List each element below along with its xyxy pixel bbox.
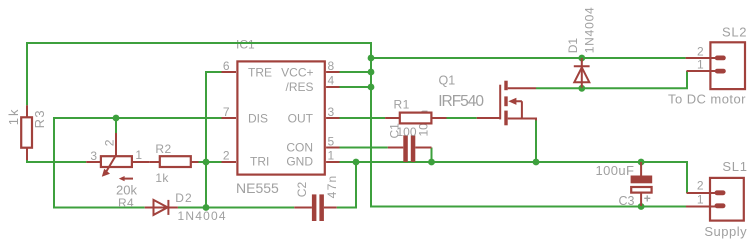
potentiometer R4 pin 2 lead bbox=[115, 133, 117, 156]
wire CON pin 5 to C1 left bbox=[340, 147, 388, 149]
wire GND down to SL1 pin 2 bbox=[686, 161, 688, 193]
wire Q1 drain to D1 anode and SL2 pin 1 bbox=[536, 71, 687, 88]
svg-text:1: 1 bbox=[697, 193, 704, 207]
svg-text:3: 3 bbox=[328, 105, 335, 119]
IC1 pin 4 stub bbox=[326, 86, 339, 88]
IC1 NE555 body bbox=[237, 61, 324, 174]
svg-text:2: 2 bbox=[102, 139, 116, 146]
wire V+ main vertical rail bbox=[370, 42, 372, 207]
junction C2 right / GND rail bbox=[353, 159, 360, 166]
junction TRE-TRI vertical / D2 wire bbox=[203, 204, 210, 211]
svg-text:1: 1 bbox=[135, 148, 142, 162]
svg-text:1N4004: 1N4004 bbox=[178, 209, 227, 223]
resistor R3 leads bbox=[26, 105, 28, 160]
svg-text:R2: R2 bbox=[155, 142, 171, 156]
connector SL2 box bbox=[710, 42, 745, 89]
IC1 pin 7 stub bbox=[222, 117, 237, 119]
capacitor C3 bottom plate bbox=[631, 187, 651, 193]
svg-text:Q1: Q1 bbox=[439, 74, 456, 88]
junction TRE-TRI vertical / TRI wire bbox=[203, 159, 210, 166]
svg-text:NE555: NE555 bbox=[236, 180, 279, 196]
svg-text:SL1: SL1 bbox=[722, 159, 747, 174]
wire OUT pin 3 to R1 bbox=[340, 117, 386, 119]
junction Q1 source / GND rail bbox=[533, 159, 540, 166]
svg-text:3: 3 bbox=[90, 149, 97, 163]
diode D2 cathode bar bbox=[167, 200, 169, 215]
junction C3 top / GND rail bbox=[638, 159, 645, 166]
junction D1 cathode bbox=[578, 55, 585, 62]
wire D2 cathode to C2 left bbox=[178, 207, 294, 209]
connector SL2 pin 1 stub bbox=[687, 70, 717, 72]
svg-text:D1: D1 bbox=[566, 38, 580, 54]
svg-text:R1: R1 bbox=[394, 98, 410, 112]
diode D1 lead line bbox=[581, 58, 583, 62]
diode D1 cathode bar bbox=[574, 65, 590, 67]
resistor R1 leads bbox=[385, 117, 446, 119]
svg-text:VCC+: VCC+ bbox=[281, 66, 313, 80]
transistor Q1 channel bars bbox=[504, 81, 507, 91]
diode D2 lead line bbox=[145, 207, 178, 209]
capacitor C3 bottom lead bbox=[640, 193, 642, 206]
resistor R1 body bbox=[400, 113, 432, 124]
capacitor C2 right lead bbox=[324, 207, 337, 209]
junction D1 anode / drain wire bbox=[578, 85, 585, 92]
svg-text:GND: GND bbox=[286, 155, 313, 169]
wire V+ left vertical to R3 bbox=[26, 42, 28, 105]
wire C1 right down to GND rail bbox=[431, 148, 433, 163]
svg-text:8: 8 bbox=[328, 59, 335, 73]
junction pot wiper / DIS wire bbox=[113, 115, 120, 122]
svg-text:1: 1 bbox=[697, 58, 704, 72]
connector SL1 pin tabs bbox=[715, 190, 726, 195]
wire R3 bottom vertical bbox=[26, 148, 28, 162]
svg-text:5: 5 bbox=[328, 134, 335, 148]
transistor Q1 gate wire stub bbox=[477, 117, 501, 119]
connector SL2 pin 2 stub bbox=[686, 57, 716, 59]
svg-text:1k: 1k bbox=[6, 107, 21, 125]
svg-text:R4: R4 bbox=[118, 196, 134, 210]
wire DIS net bottom to D2 anode bbox=[53, 207, 145, 209]
IC1 pin 2 stub bbox=[222, 161, 237, 163]
wire V+ top horizontal bbox=[27, 42, 371, 44]
svg-text:47n: 47n bbox=[325, 174, 339, 198]
wire V+ branch y58 to D1 cathode and SL2 pin 2 bbox=[371, 57, 686, 59]
diode D1 triangle bbox=[574, 67, 589, 82]
junction C3 bottom / V+ bottom wire bbox=[638, 203, 645, 210]
transistor Q1 substrate arrow bbox=[508, 98, 516, 105]
svg-text:OUT: OUT bbox=[288, 111, 314, 125]
transistor Q1 gate line bbox=[499, 85, 501, 120]
capacitor C2 plates bbox=[312, 194, 317, 221]
potentiometer R4 pin 1 lead bbox=[132, 161, 149, 163]
svg-text:1k: 1k bbox=[155, 171, 169, 185]
connector SL1 box bbox=[710, 178, 744, 221]
wire DIS net left vertical bbox=[53, 117, 55, 208]
svg-text:R3: R3 bbox=[32, 109, 47, 128]
svg-text:6: 6 bbox=[223, 59, 230, 73]
potentiometer R4 pin 3 lead bbox=[86, 161, 101, 163]
potentiometer R4 wiper diagonal bbox=[106, 155, 116, 172]
wire TRE/TRI vertical link bbox=[205, 71, 207, 208]
IC1 pin 3 stub bbox=[326, 117, 339, 119]
wire GND rail y161.6 bbox=[340, 161, 688, 163]
wire Q1 source down to GND rail bbox=[535, 120, 537, 162]
svg-text:IC1: IC1 bbox=[236, 38, 255, 52]
transistor Q1 source lead bbox=[508, 119, 537, 121]
svg-text:C2: C2 bbox=[295, 182, 309, 198]
svg-text:C1: C1 bbox=[388, 123, 402, 139]
potentiometer R4 wiper arrowhead bbox=[102, 169, 110, 177]
diode D2 triangle bbox=[154, 200, 168, 215]
resistor R2 body bbox=[160, 156, 191, 167]
svg-text:Supply: Supply bbox=[704, 224, 747, 239]
wire pin 4 /RES bbox=[340, 86, 372, 88]
IC1 pin 1 stub bbox=[326, 161, 339, 163]
wire C2 right to GND rail bbox=[337, 162, 356, 208]
svg-text:DIS: DIS bbox=[248, 111, 268, 125]
junction C1 right / GND rail bbox=[428, 159, 435, 166]
resistor R2 leads bbox=[149, 161, 198, 163]
IC1 pin 5 stub bbox=[326, 147, 339, 149]
IC1 pin 8 stub bbox=[326, 71, 339, 73]
svg-text:+: + bbox=[644, 192, 651, 206]
svg-text:100uF: 100uF bbox=[596, 163, 635, 178]
svg-text:TRE: TRE bbox=[248, 66, 272, 80]
capacitor C1 right lead bbox=[415, 147, 431, 149]
connector SL2 pin tabs bbox=[715, 56, 726, 61]
potentiometer R4 adjust arrowhead bbox=[119, 176, 125, 181]
potentiometer R4 body bbox=[101, 156, 132, 167]
transistor Q1 drain lead bbox=[508, 87, 536, 89]
junction V+ rail / pin 4 bbox=[368, 84, 375, 91]
svg-text:1: 1 bbox=[328, 149, 335, 163]
wire TRE pin 6 horizontal bbox=[206, 71, 222, 73]
junction V+ rail / pin 8 bbox=[368, 69, 375, 76]
capacitor C3 top plate bbox=[631, 176, 653, 184]
capacitor C1 left lead bbox=[388, 147, 404, 149]
resistor R3 body bbox=[21, 117, 32, 147]
capacitor C2 left lead bbox=[294, 207, 312, 209]
wire R1 to Q1 gate bbox=[447, 117, 477, 119]
wire R2 to TRI pin 2 bbox=[199, 161, 222, 163]
capacitor C3 top lead bbox=[640, 162, 642, 166]
svg-text:/RES: /RES bbox=[285, 80, 313, 94]
svg-text:CON: CON bbox=[286, 140, 313, 154]
svg-text:TRI: TRI bbox=[250, 155, 269, 169]
svg-text:2: 2 bbox=[697, 45, 704, 59]
wire pot wiper up to DIS wire bbox=[115, 118, 117, 133]
svg-text:To DC motor: To DC motor bbox=[668, 91, 746, 106]
svg-text:20k: 20k bbox=[116, 183, 137, 198]
potentiometer R4 adjust arrow bbox=[123, 178, 133, 180]
wire R3 bottom to pot pin 3 bbox=[26, 161, 86, 163]
svg-text:C3: C3 bbox=[619, 194, 635, 208]
connector SL1 pin 2 stub bbox=[687, 192, 717, 194]
svg-text:2: 2 bbox=[223, 149, 230, 163]
svg-text:2: 2 bbox=[697, 179, 704, 193]
junction V+ rail / y58 branch bbox=[368, 55, 375, 62]
svg-text:4: 4 bbox=[328, 73, 335, 87]
svg-text:IRF540: IRF540 bbox=[438, 93, 484, 110]
wire V+ bottom horizontal to SL1 pin 1 bbox=[370, 206, 686, 208]
wire DIS net horizontal y118 bbox=[54, 117, 222, 119]
svg-text:1N4004: 1N4004 bbox=[582, 6, 596, 53]
IC1 pin 6 stub bbox=[222, 71, 237, 73]
svg-text:SL2: SL2 bbox=[722, 25, 747, 40]
capacitor C1 plates bbox=[403, 135, 408, 162]
svg-text:7: 7 bbox=[223, 105, 230, 119]
svg-text:D2: D2 bbox=[175, 191, 192, 205]
connector SL1 pin 1 stub bbox=[686, 206, 716, 208]
wire pin 8 VCC+ bbox=[340, 71, 372, 73]
